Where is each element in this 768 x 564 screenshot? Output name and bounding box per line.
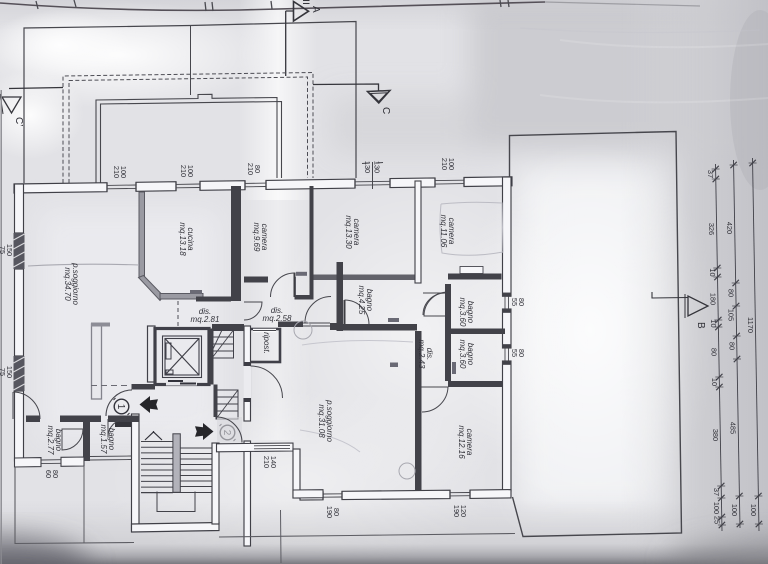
corridor south wall bbox=[212, 324, 244, 331]
label 130/130 bbox=[363, 161, 382, 173]
room label cucina bbox=[178, 222, 195, 256]
window 150/75 hatched bbox=[14, 356, 25, 391]
balcony line bottom-left bbox=[15, 467, 134, 544]
wall cucina/soggiorno bbox=[139, 192, 145, 278]
door arc bagno3.60-1 bbox=[423, 293, 445, 315]
svg-text:130: 130 bbox=[373, 161, 382, 173]
room label bagno4.25 bbox=[357, 286, 374, 315]
room label bagno2.77 bbox=[46, 426, 63, 455]
svg-text:105: 105 bbox=[727, 309, 736, 321]
upper vertical divider bbox=[190, 26, 192, 95]
svg-text:210: 210 bbox=[440, 158, 449, 170]
svg-text:55: 55 bbox=[510, 349, 519, 357]
wall right of elevator bbox=[209, 329, 214, 385]
svg-text:mq.12.16: mq.12.16 bbox=[457, 425, 466, 459]
svg-text:mq.34.70: mq.34.70 bbox=[63, 267, 72, 301]
svg-text:ripost.: ripost. bbox=[262, 332, 271, 354]
bagno2.77 south wall bbox=[15, 458, 42, 467]
vestibule door gap bbox=[243, 366, 251, 398]
svg-text:10: 10 bbox=[710, 378, 719, 386]
camera13.30 south wall bbox=[314, 275, 416, 281]
stairwell left wall bbox=[132, 414, 140, 531]
upper outline rect bbox=[24, 22, 356, 184]
top edge ticks bbox=[36, 0, 509, 11]
room label bagno1.57 bbox=[99, 425, 116, 454]
bagno4.25 west wall bbox=[337, 262, 344, 331]
stairwell right wall upper bbox=[214, 385, 218, 418]
svg-text:130: 130 bbox=[363, 161, 372, 173]
section marker C-prime bbox=[0, 88, 63, 115]
window 80/60 bbox=[41, 460, 61, 464]
terrace outline bbox=[510, 132, 682, 537]
door 140/210 bbox=[254, 445, 290, 448]
svg-text:1: 1 bbox=[115, 404, 126, 410]
label 150/75 bbox=[0, 244, 14, 256]
section line to C bbox=[313, 84, 379, 91]
svg-text:210: 210 bbox=[262, 456, 271, 468]
door arc bagno1.57 bbox=[108, 419, 126, 437]
left paper edge line bbox=[0, 90, 2, 564]
room label bagno3.60b bbox=[458, 340, 475, 369]
svg-text:B: B bbox=[695, 322, 706, 329]
bagni west wall bbox=[445, 284, 451, 381]
svg-text:mq.1.57: mq.1.57 bbox=[99, 425, 108, 454]
apartment-1 arrow bbox=[140, 396, 159, 413]
window 100/210 bbox=[435, 178, 464, 187]
dimension chain 3 bbox=[749, 158, 763, 531]
label 140/210 bbox=[262, 456, 278, 468]
svg-text:190: 190 bbox=[325, 506, 334, 518]
paper top edge bbox=[0, 2, 545, 10]
svg-text:mq.13.18: mq.13.18 bbox=[178, 222, 187, 256]
window 100/210 bbox=[107, 182, 136, 191]
svg-text:mq.2.58: mq.2.58 bbox=[263, 314, 292, 323]
hall west wall (gray hollow) bbox=[92, 324, 102, 399]
stairwell bottom wall bbox=[132, 523, 220, 533]
hall north wall gray bbox=[91, 323, 110, 327]
apartment-2 arrow bbox=[195, 423, 214, 440]
svg-text:55: 55 bbox=[510, 298, 519, 306]
pencil curve soggiorno31 bbox=[300, 341, 413, 452]
apartment-2 circle bbox=[220, 424, 236, 441]
svg-text:100: 100 bbox=[730, 504, 739, 516]
elevator outer box bbox=[155, 329, 209, 385]
door arc soggiorno/hall bbox=[13, 392, 40, 419]
window 100/210 bbox=[176, 181, 200, 190]
svg-text:37: 37 bbox=[706, 170, 715, 178]
corridor east wall bbox=[244, 326, 251, 421]
camera12.16 north wall bbox=[448, 381, 503, 387]
door arc soggiorno31 bbox=[305, 297, 331, 323]
window 80/210 bbox=[245, 180, 266, 189]
svg-text:mq.2.81: mq.2.81 bbox=[191, 315, 220, 324]
hallway top-left dark wall bbox=[132, 384, 156, 390]
svg-text:100: 100 bbox=[749, 504, 758, 516]
right exterior wall bbox=[503, 177, 512, 296]
label 80/55 bbox=[510, 349, 526, 357]
apartment-1 circle bbox=[114, 398, 130, 415]
svg-text:100: 100 bbox=[712, 502, 721, 514]
stair flight bbox=[141, 434, 212, 512]
niche below camera11.06 wall bbox=[460, 267, 483, 274]
apt1 door arc bbox=[106, 390, 132, 416]
pencil sketch camera11.06 bbox=[440, 202, 503, 255]
door bagno4.25: leaf + arc bbox=[344, 300, 346, 324]
radiator marks bbox=[190, 272, 456, 374]
cucina south wall gray bbox=[160, 294, 203, 300]
svg-text:mq.4.25: mq.4.25 bbox=[357, 286, 366, 315]
svg-text:420: 420 bbox=[725, 222, 734, 234]
svg-text:mq.3.60: mq.3.60 bbox=[458, 298, 467, 327]
door soggiorno31 thin lines bbox=[303, 323, 330, 326]
wall soggiorno31/camera12.16 bbox=[415, 331, 422, 491]
label 100/210 bbox=[179, 165, 195, 177]
diagonal wall bbox=[139, 276, 164, 301]
svg-text:mq.3.60: mq.3.60 bbox=[458, 340, 467, 369]
door jamb bagno1.57 bbox=[115, 422, 131, 427]
bottom exterior wall segments bbox=[300, 492, 323, 501]
double-line rect bbox=[96, 94, 277, 183]
svg-text:C’: C’ bbox=[13, 117, 24, 126]
wall camera11.06 left bbox=[415, 181, 421, 283]
wall cucina/camera9.69 bbox=[231, 186, 241, 301]
dimension chain 2 bbox=[730, 160, 744, 528]
svg-text:mq.2.77: mq.2.77 bbox=[46, 426, 55, 455]
window 80/190 bbox=[323, 491, 342, 500]
window 130/130 bbox=[355, 179, 390, 189]
apt2 entry horizontal wall bbox=[217, 443, 294, 452]
window 150/75 hatched bbox=[14, 233, 25, 269]
svg-text:mq.31.08: mq.31.08 bbox=[317, 404, 326, 438]
vestibule door arc bbox=[251, 366, 283, 398]
door arc bagno2.77 bbox=[62, 429, 83, 450]
svg-text:1170: 1170 bbox=[746, 317, 755, 333]
svg-text:37: 37 bbox=[712, 488, 721, 496]
svg-text:180: 180 bbox=[708, 293, 717, 305]
section marker C bbox=[368, 91, 391, 104]
door arc dis2.81/dis2.58 bbox=[244, 302, 262, 320]
stair up-arrow bbox=[145, 431, 162, 440]
svg-text:210: 210 bbox=[179, 165, 188, 177]
camera11.06 south wall bbox=[448, 274, 502, 280]
svg-text:190: 190 bbox=[452, 505, 461, 517]
svg-text:80: 80 bbox=[727, 342, 736, 350]
bagno divider wall bbox=[451, 329, 505, 335]
balcony divider bbox=[83, 466, 85, 543]
svg-text:mq.13.30: mq.13.30 bbox=[344, 215, 353, 249]
room label camera11.06 bbox=[439, 215, 456, 248]
label 150/75 bbox=[0, 366, 14, 378]
room label ripost bbox=[262, 332, 271, 354]
svg-text:485: 485 bbox=[729, 422, 738, 434]
small stair lower bbox=[216, 390, 238, 419]
pencil line soggiorno34 bbox=[28, 264, 139, 266]
room label camera9.69 bbox=[252, 223, 269, 252]
door arc camera12.16 bbox=[422, 387, 449, 412]
cucina south wall dark bbox=[196, 297, 231, 302]
label 80/190 bbox=[325, 506, 341, 518]
paper wrinkles bbox=[540, 40, 768, 102]
room label camera12.16 bbox=[457, 425, 474, 459]
pencil circle doodle2 bbox=[399, 463, 415, 479]
room label bagno3.60a bbox=[458, 298, 475, 327]
svg-text:mq.9.69: mq.9.69 bbox=[252, 223, 261, 252]
elevator left shaft bbox=[148, 326, 156, 382]
wall camera9.69/camera13.30 (hollow) bbox=[310, 186, 314, 300]
svg-text:210: 210 bbox=[246, 163, 255, 175]
window 80/55 bbox=[503, 293, 512, 312]
svg-text:mq.2.43: mq.2.43 bbox=[417, 340, 426, 369]
camera9.69 south wall bbox=[244, 277, 268, 283]
svg-text:10: 10 bbox=[708, 268, 717, 276]
dashed hall/dis boundary bbox=[91, 385, 131, 387]
label 80/60 bbox=[44, 470, 60, 478]
dashed rect outer bbox=[63, 73, 313, 184]
dimension chain 1 bbox=[712, 164, 726, 531]
section marker B bbox=[652, 292, 708, 318]
label 80/55 bbox=[510, 298, 526, 306]
door camera9.69: leaf + arc bbox=[294, 273, 296, 298]
door arc camera11.06/dis2.43 bbox=[424, 292, 448, 316]
room label soggiorno31 bbox=[317, 399, 334, 442]
svg-text:mq.11.06: mq.11.06 bbox=[439, 215, 448, 248]
svg-text:326: 326 bbox=[707, 223, 716, 235]
label 120/190 bbox=[452, 505, 468, 517]
svg-text:10: 10 bbox=[709, 319, 718, 327]
room label camera13.30 bbox=[344, 215, 361, 249]
room label dis2.43 bbox=[417, 340, 434, 369]
svg-text:80: 80 bbox=[709, 348, 718, 356]
svg-text:75: 75 bbox=[0, 368, 7, 376]
svg-text:25: 25 bbox=[712, 516, 721, 524]
door arc apt2 bbox=[217, 417, 242, 443]
svg-text:C: C bbox=[380, 107, 391, 114]
hallway south walls bbox=[26, 416, 40, 423]
divider bottom cap bbox=[295, 295, 314, 300]
svg-text:380: 380 bbox=[711, 429, 720, 441]
svg-text:A: A bbox=[310, 6, 321, 13]
elevator door bbox=[168, 381, 196, 384]
svg-text:80: 80 bbox=[726, 289, 735, 297]
soggiorno31 west wall bbox=[293, 449, 300, 498]
small stair upper bbox=[212, 330, 234, 358]
balcony line bottom-center bbox=[219, 534, 515, 538]
pencil circle doodle bbox=[294, 321, 312, 339]
dashed rect inner bbox=[69, 77, 308, 183]
label 100/210 bbox=[440, 158, 456, 170]
label 80/210 bbox=[246, 163, 262, 175]
stairwell right wall lower bbox=[212, 443, 219, 524]
window 80/55 bbox=[503, 345, 512, 365]
svg-text:60: 60 bbox=[44, 470, 53, 478]
bagno divider wall bbox=[83, 422, 90, 461]
top exterior wall segments bbox=[14, 183, 107, 193]
left exterior wall bbox=[15, 184, 24, 233]
dashed opening cucina/dis bbox=[177, 301, 179, 327]
svg-text:75: 75 bbox=[0, 246, 7, 254]
window 120/190 bbox=[450, 490, 470, 499]
room label soggiorno34 bbox=[63, 262, 80, 305]
section marker A bbox=[286, 1, 310, 77]
balcony divider2 bbox=[280, 510, 283, 563]
label 100/210 bbox=[112, 166, 128, 178]
soggiorno31 south-west wall bbox=[293, 490, 323, 498]
bagno1.57 south wall bbox=[90, 456, 132, 460]
bagno2 south wall bbox=[445, 376, 451, 382]
ripost closet bbox=[249, 329, 280, 362]
window mullion + ticks bbox=[362, 162, 383, 189]
svg-text:210: 210 bbox=[112, 166, 121, 178]
